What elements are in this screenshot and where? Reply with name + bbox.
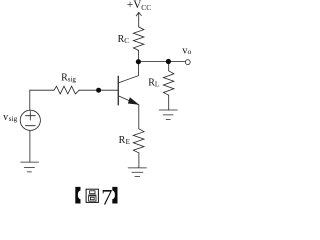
wire vsig to ground	[29, 130, 31, 162]
svg-text:vsig: vsig	[3, 112, 17, 123]
wire collector of Q1 to node A	[119, 62, 139, 83]
wire vsig top	[29, 90, 31, 110]
resistor RC	[133, 27, 144, 51]
wire emitter to RE	[138, 105, 140, 129]
wire RE to ground	[138, 153, 140, 168]
wire node A to vo terminal	[139, 61, 186, 63]
caption glyph TU (figure)	[86, 189, 98, 202]
resistor RL	[163, 71, 174, 95]
caption right lenticular bracket	[112, 187, 117, 204]
wire base input right segment	[79, 89, 118, 91]
svg-text:7: 7	[101, 184, 112, 209]
node vo open terminal	[185, 60, 190, 65]
transistor Q1 emitter	[119, 96, 139, 105]
ground under RL	[159, 110, 177, 120]
wire RL to ground	[168, 95, 170, 110]
caption left lenticular bracket	[75, 187, 80, 204]
source vsig plus sign	[26, 111, 36, 120]
resistor RE	[133, 129, 144, 153]
transistor Q1 base bar	[117, 76, 119, 105]
wire RC to node A	[138, 51, 140, 62]
wire node B down to RL	[168, 62, 170, 71]
wire base input left segment	[30, 89, 54, 91]
node +VCC supply arrow	[136, 12, 141, 27]
transistor Q1 emitter arrow	[128, 97, 139, 104]
ground under RE	[128, 168, 146, 177]
source vsig minus sign	[26, 125, 36, 127]
node A junction dot	[136, 59, 141, 64]
source vsig circle	[20, 110, 40, 130]
ground under vsig	[21, 162, 39, 172]
node base junction dot	[96, 88, 101, 93]
svg-text:vo: vo	[182, 45, 191, 56]
resistor Rsig	[54, 86, 79, 94]
node B junction dot	[166, 59, 171, 64]
caption figure 7	[75, 184, 117, 209]
